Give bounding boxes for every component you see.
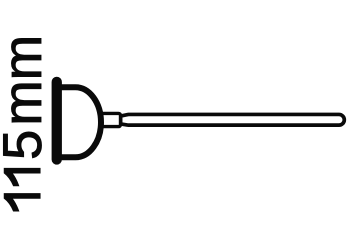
shaft with taper and rounded end (121, 114, 345, 125)
digit 1 (first) of 115mm label, rotated (4, 194, 40, 212)
svg-text:5: 5 (0, 130, 53, 160)
disc face (52, 77, 62, 165)
collar (101, 113, 121, 126)
dome (55, 87, 101, 157)
svg-text:mm: mm (0, 35, 53, 126)
digit 1 (second) of 115mm label, rotated (4, 168, 40, 186)
